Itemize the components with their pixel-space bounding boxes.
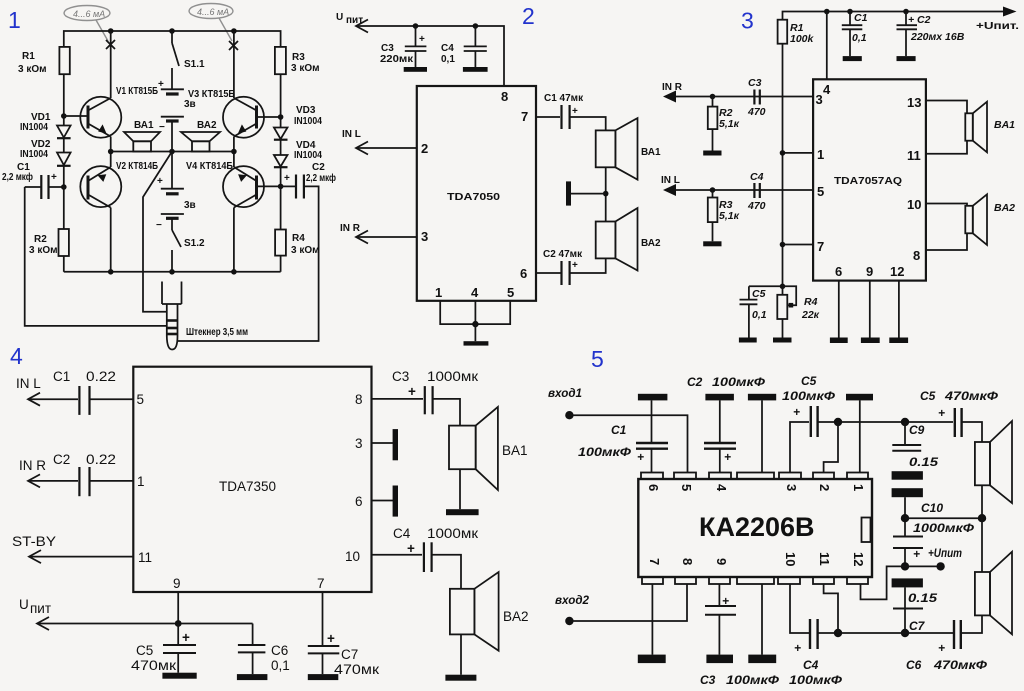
speaker BA1: [596, 130, 616, 167]
capacitor C4 1000mk: [423, 542, 425, 572]
capacitor C9 0.15: [904, 422, 906, 445]
svg-text:4...6 мА: 4...6 мА: [197, 7, 229, 17]
op-amp U1 TDA7350 body: [133, 367, 371, 592]
capacitor C2 0.22: [78, 467, 80, 496]
svg-text:C6: C6: [271, 643, 288, 658]
svg-text:3 кОм: 3 кОм: [29, 245, 58, 256]
svg-text:1: 1: [435, 285, 442, 300]
svg-text:1000мк: 1000мк: [427, 369, 478, 384]
potentiometer R4 22k: [782, 286, 784, 295]
bar4 stem wire to pin 1: [859, 400, 861, 472]
ground C7: [308, 674, 339, 680]
svg-text:3: 3: [816, 92, 823, 107]
ground R3: [703, 241, 721, 246]
svg-text:C4: C4: [441, 43, 454, 54]
capacitor C5 470mk: [177, 624, 179, 646]
svg-text:7: 7: [317, 576, 325, 591]
transistor V4 KT814B: [223, 152, 281, 272]
svg-text:IN L: IN L: [16, 376, 41, 391]
svg-text:ВА2: ВА2: [641, 238, 661, 249]
svg-text:470: 470: [747, 200, 766, 212]
svg-text:8: 8: [501, 89, 508, 104]
svg-text:1: 1: [137, 474, 145, 489]
svg-text:4: 4: [714, 484, 729, 492]
pin 12 net wire: [861, 566, 906, 599]
svg-text:U: U: [19, 597, 29, 612]
svg-text:C1: C1: [854, 12, 868, 24]
svg-text:VD3: VD3: [296, 105, 316, 116]
IC U1 KA2206B body: [638, 479, 872, 577]
svg-text:IN L: IN L: [342, 129, 361, 140]
ground C5: [739, 338, 757, 343]
svg-text:V3 КТ815Б: V3 КТ815Б: [188, 89, 235, 100]
supply wire: [356, 26, 504, 86]
capacitor C3 470: [753, 90, 755, 105]
svg-text:3: 3: [784, 484, 799, 491]
svg-text:6: 6: [646, 484, 661, 491]
svg-text:C3: C3: [748, 77, 762, 89]
IN L input wire: [666, 189, 813, 191]
svg-text:IN1004: IN1004: [20, 122, 48, 133]
current callout ellipse right 4...6 mA: [189, 4, 233, 42]
svg-text:3 кОм: 3 кОм: [291, 63, 320, 74]
ground bottom: [464, 341, 489, 345]
speaker BA2: [965, 206, 973, 234]
svg-text:C2 47мк: C2 47мк: [543, 249, 583, 260]
svg-text:+: +: [938, 641, 945, 655]
op-amp U1 TDA7057AQ body: [813, 79, 926, 280]
transistor V3 KT815B: [223, 31, 281, 152]
svg-text:2: 2: [421, 141, 428, 156]
svg-text:4: 4: [10, 343, 23, 369]
svg-text:BA1: BA1: [994, 119, 1015, 131]
svg-text:S1.2: S1.2: [184, 238, 205, 249]
svg-text:220мх 16В: 220мх 16В: [910, 31, 965, 43]
svg-text:5,1к: 5,1к: [719, 210, 740, 222]
svg-text:IN1004: IN1004: [294, 150, 322, 161]
IN L arrow pin2: [356, 147, 417, 149]
svg-text:470мк: 470мк: [131, 658, 176, 673]
capacitor C4 470: [753, 183, 755, 198]
svg-text:8: 8: [355, 392, 363, 407]
R1 column wire: [782, 44, 784, 287]
resistor R1: [59, 47, 69, 74]
svg-text:1: 1: [8, 7, 21, 33]
ground C4: [463, 67, 488, 72]
svg-text:3 кОм: 3 кОм: [291, 245, 320, 256]
svg-text:7: 7: [521, 109, 528, 124]
svg-text:R4: R4: [292, 233, 305, 244]
svg-text:C7: C7: [909, 619, 926, 633]
svg-text:R3: R3: [292, 52, 305, 63]
svg-text:R1: R1: [22, 51, 35, 62]
top ground bar 3: [748, 394, 776, 401]
svg-text:0,1: 0,1: [441, 54, 455, 65]
switch S1.2: [171, 218, 173, 230]
svg-text:470мк: 470мк: [334, 662, 379, 677]
svg-text:3 кОм: 3 кОм: [18, 64, 47, 75]
svg-text:S1.1: S1.1: [184, 59, 205, 70]
svg-text:IN R: IN R: [340, 223, 361, 234]
svg-text:+: +: [572, 260, 578, 271]
node dot R2: [710, 94, 716, 100]
svg-text:TDA7350: TDA7350: [219, 479, 276, 494]
speaker BA1: [965, 113, 973, 140]
svg-text:C5: C5: [752, 288, 766, 300]
svg-text:IN1004: IN1004: [294, 116, 322, 127]
capacitor C7 0.15 chain: [892, 578, 923, 587]
capacitor C4 0,1: [474, 26, 476, 46]
ground R4: [773, 338, 792, 343]
svg-text:TDA7057AQ: TDA7057AQ: [834, 176, 902, 187]
svg-text:V1 КТ815Б: V1 КТ815Б: [116, 86, 158, 97]
wide pad ground stem: [761, 584, 763, 655]
top supply rail: [783, 12, 1005, 20]
svg-text:−: −: [159, 122, 165, 133]
svg-text:0,1: 0,1: [852, 32, 867, 44]
svg-text:C2: C2: [917, 14, 931, 26]
svg-text:7: 7: [817, 239, 824, 254]
svg-text:+: +: [408, 384, 416, 399]
battery B1 3v: [161, 88, 184, 90]
diode VD2: [57, 153, 71, 188]
svg-text:3: 3: [355, 436, 363, 451]
pin 11 jog wire: [824, 584, 838, 633]
ground C1: [843, 56, 862, 61]
svg-text:6: 6: [355, 494, 363, 509]
svg-text:U: U: [336, 12, 343, 23]
svg-text:ВА1: ВА1: [641, 147, 661, 158]
svg-text:100мкФ: 100мкФ: [789, 673, 843, 687]
capacitor C5 0,1: [749, 285, 783, 287]
svg-text:2,2 мкф: 2,2 мкф: [306, 172, 336, 184]
supply arrow: [356, 20, 368, 33]
svg-text:+: +: [327, 631, 335, 646]
svg-text:5: 5: [507, 285, 514, 300]
svg-text:+: +: [158, 79, 164, 90]
svg-text:ВА2: ВА2: [197, 120, 217, 131]
node dot C9: [901, 418, 909, 426]
svg-text:6: 6: [520, 266, 527, 281]
svg-text:C3: C3: [392, 369, 409, 384]
svg-text:V4 КТ814Б: V4 КТ814Б: [186, 161, 233, 172]
svg-text:6: 6: [835, 264, 842, 279]
wire base V1: [64, 115, 87, 117]
transistor V2 KT814B: [80, 152, 121, 272]
transistor V1 KT815B: [80, 31, 121, 152]
svg-text:КА2206В: КА2206В: [699, 512, 815, 542]
speaker BA2: [450, 589, 475, 635]
pin 4 wire: [826, 12, 828, 80]
pin 1 wire: [783, 152, 814, 154]
capacitor C1 2,2мкф: [50, 186, 64, 188]
svg-text:100мкФ: 100мкФ: [726, 673, 780, 687]
capacitor C3 1000mk: [424, 386, 426, 414]
capacitor C2 47mk: [570, 258, 606, 273]
svg-text:+Uпит: +Uпит: [928, 546, 962, 560]
svg-text:22к: 22к: [801, 309, 820, 321]
svg-text:+: +: [908, 14, 914, 26]
capacitor C3 220mk: [415, 26, 417, 46]
top ground bar 2: [705, 394, 734, 401]
svg-text:C4: C4: [803, 658, 819, 672]
svg-text:2,2 мкф: 2,2 мкф: [2, 171, 33, 183]
svg-text:вход1: вход1: [548, 386, 582, 400]
svg-text:470мкФ: 470мкФ: [944, 389, 999, 403]
svg-text:BA1: BA1: [502, 443, 528, 458]
speaker BA1: [975, 442, 990, 485]
svg-text:10: 10: [783, 552, 798, 566]
svg-text:8: 8: [913, 248, 920, 263]
svg-text:+: +: [182, 630, 190, 645]
svg-text:3: 3: [741, 8, 754, 34]
wire R1 bottom: [63, 74, 65, 125]
svg-text:TDA7050: TDA7050: [447, 192, 501, 203]
node dot base V1: [61, 113, 67, 119]
top ground bar 4: [846, 394, 873, 401]
svg-text:10: 10: [907, 197, 921, 212]
svg-text:470: 470: [747, 106, 766, 118]
bottom rail: [64, 271, 281, 273]
top rail: [64, 31, 281, 47]
ground BA1: [446, 509, 479, 515]
switch S1.1: [171, 31, 173, 43]
pin 11 wire to BA1: [926, 141, 967, 154]
ground C3: [404, 67, 427, 72]
svg-text:C3: C3: [381, 43, 394, 54]
node dots: [413, 23, 419, 29]
svg-text:13: 13: [907, 95, 921, 110]
svg-text:+: +: [793, 405, 800, 419]
svg-text:C7: C7: [341, 647, 358, 662]
svg-text:4: 4: [823, 82, 831, 97]
svg-text:+: +: [794, 641, 801, 655]
svg-text:1000мк: 1000мк: [427, 526, 478, 541]
svg-text:C1: C1: [611, 423, 627, 437]
svg-text:100мкФ: 100мкФ: [782, 389, 836, 403]
diode VD4: [274, 155, 288, 186]
svg-text:3в: 3в: [184, 99, 196, 110]
capacitor C3 100mkF: [718, 584, 720, 606]
svg-text:ВА1: ВА1: [134, 120, 154, 131]
resistor R1 100k: [778, 20, 788, 44]
svg-text:C1: C1: [53, 369, 70, 384]
svg-text:11: 11: [138, 550, 152, 565]
svg-text:+: +: [572, 106, 578, 117]
svg-text:2: 2: [817, 484, 832, 491]
svg-text:C5: C5: [136, 643, 153, 658]
bottom pins 1,4,5 join: [440, 301, 510, 324]
ground R2: [703, 151, 721, 156]
svg-text:ST-BY: ST-BY: [12, 534, 56, 549]
svg-text:1: 1: [851, 484, 866, 491]
svg-text:C6: C6: [906, 658, 922, 672]
svg-text:5: 5: [817, 184, 824, 199]
bar3 stem wire: [761, 400, 763, 472]
svg-text:C2: C2: [687, 375, 703, 389]
wire diagonal center to plug: [143, 152, 172, 312]
svg-text:10: 10: [345, 549, 360, 564]
svg-text:R2: R2: [34, 234, 47, 245]
svg-text:5,1к: 5,1к: [719, 118, 740, 130]
svg-text:8: 8: [680, 558, 695, 565]
op-amp U1 TDA7050 body: [417, 86, 536, 301]
svg-text:9: 9: [714, 558, 729, 565]
svg-text:пит: пит: [30, 601, 51, 616]
speaker BA1: [124, 132, 160, 141]
svg-text:+: +: [637, 450, 644, 464]
ground C2: [897, 56, 916, 61]
resistor R3 5,1k: [712, 190, 714, 198]
svg-text:V2 КТ814Б: V2 КТ814Б: [116, 161, 158, 172]
svg-text:7: 7: [647, 558, 662, 565]
svg-text:+: +: [407, 541, 415, 556]
resistor R2 5,1k: [712, 97, 714, 107]
+Upit terminal: [905, 565, 940, 567]
svg-text:11: 11: [907, 148, 921, 163]
measure point X left: [106, 40, 115, 49]
svg-text:+: +: [724, 450, 731, 464]
ground BA2: [445, 675, 476, 681]
svg-text:1: 1: [817, 147, 824, 162]
+Upit arrow: [1003, 7, 1017, 17]
svg-text:+Uпит.: +Uпит.: [976, 21, 1019, 32]
svg-text:IN L: IN L: [661, 175, 680, 186]
capacitor C10 1000mkF chain: [892, 488, 923, 497]
capacitor C2 2,2мкф: [281, 185, 295, 187]
IN R input wire: [666, 96, 813, 98]
ground bar C9: [892, 471, 923, 480]
node dot under bar: [834, 418, 842, 426]
svg-text:0.22: 0.22: [86, 452, 116, 467]
svg-text:0,1: 0,1: [271, 658, 290, 673]
svg-text:0.22: 0.22: [86, 369, 116, 384]
pin 8 wire to BA2: [926, 233, 967, 250]
svg-text:100мкФ: 100мкФ: [578, 445, 632, 459]
capacitor C2 220mk 16V: [905, 12, 907, 26]
speaker BA1: [449, 426, 476, 470]
pin 10 wire to BA2: [926, 204, 967, 206]
pin 12 stem + ground: [898, 281, 900, 338]
svg-text:12: 12: [851, 552, 866, 566]
svg-text:0.15: 0.15: [908, 591, 937, 605]
svg-text:вход2: вход2: [555, 593, 589, 607]
svg-text:C9: C9: [909, 423, 925, 437]
svg-text:100мкФ: 100мкФ: [712, 375, 766, 389]
svg-text:5: 5: [591, 346, 604, 372]
svg-text:IN1004: IN1004: [20, 149, 48, 160]
svg-text:+: +: [913, 547, 920, 561]
svg-text:4: 4: [471, 285, 479, 300]
capacitor C1 100mkF: [651, 400, 653, 443]
center tap wire: [605, 167, 607, 221]
svg-text:9: 9: [866, 264, 873, 279]
svg-text:C2: C2: [312, 162, 325, 173]
ground bar vertical: [566, 181, 571, 205]
svg-text:C4: C4: [393, 526, 411, 541]
resistor R3: [275, 47, 286, 74]
svg-text:12: 12: [890, 264, 904, 279]
svg-text:−: −: [156, 220, 162, 231]
pin 9 stem + ground: [869, 281, 871, 338]
battery B2 3v: [171, 152, 173, 189]
svg-text:+: +: [157, 176, 163, 187]
resistor R2: [63, 187, 65, 229]
pin 13 wire to BA1: [926, 101, 967, 114]
svg-text:C5: C5: [801, 374, 817, 388]
svg-text:IN R: IN R: [662, 82, 683, 93]
svg-text:R4: R4: [804, 296, 818, 308]
capacitor C6 470mkF: [953, 620, 955, 649]
capacitor C6 0,1: [252, 624, 254, 646]
svg-text:+: +: [51, 172, 57, 183]
mid rail: [111, 151, 234, 153]
svg-text:2: 2: [522, 3, 535, 29]
svg-text:+: +: [938, 406, 945, 420]
speaker BA2: [975, 572, 990, 615]
svg-text:470мкФ: 470мкФ: [933, 658, 988, 672]
top ground bar 1: [638, 394, 668, 401]
svg-text:0.15: 0.15: [909, 455, 938, 469]
svg-text:C5: C5: [920, 389, 936, 403]
capacitor C4 100mkF: [790, 584, 809, 633]
top pin pads: [641, 473, 663, 480]
svg-text:100k: 100k: [790, 33, 815, 45]
wire left loop to plug: [25, 187, 167, 326]
ground C5: [162, 673, 196, 679]
speaker BA2: [596, 222, 616, 259]
pin 7 ground stem: [651, 584, 653, 655]
diode VD1: [57, 126, 71, 153]
pin 7 wire: [783, 244, 814, 246]
speaker BA2: [181, 132, 220, 141]
measure point X right: [229, 41, 238, 50]
node dot R3: [710, 187, 716, 193]
plug 3.5mm: [162, 282, 182, 350]
svg-text:C1 47мк: C1 47мк: [544, 93, 584, 104]
diode VD3: [274, 128, 288, 155]
svg-text:3: 3: [421, 229, 428, 244]
svg-text:Штекнер 3,5 мм: Штекнер 3,5 мм: [186, 327, 248, 338]
svg-text:IN R: IN R: [19, 458, 46, 473]
current callout ellipse left 4...6 mA: [64, 6, 110, 42]
node dot VD2/C1/R2/base V2: [61, 184, 67, 190]
svg-text:C4: C4: [750, 171, 764, 183]
pin 6 stem + ground: [838, 281, 840, 338]
node dots top rail: [108, 28, 114, 34]
ground C6: [237, 674, 268, 680]
resistor R4: [280, 186, 282, 229]
svg-text:BA2: BA2: [503, 609, 529, 624]
svg-text:9: 9: [173, 576, 181, 591]
notch tab on right edge: [862, 518, 871, 543]
svg-text:+: +: [419, 34, 425, 45]
svg-text:BA2: BA2: [994, 202, 1015, 214]
svg-text:3в: 3в: [184, 200, 196, 211]
svg-text:0,1: 0,1: [752, 309, 767, 321]
svg-text:+: +: [284, 173, 290, 184]
svg-text:5: 5: [679, 484, 694, 491]
capacitor C1 0.22: [78, 386, 80, 415]
svg-text:C10: C10: [921, 501, 943, 515]
svg-text:+: +: [722, 594, 729, 608]
node dot mid rail left: [108, 149, 114, 155]
svg-text:4...6 мА: 4...6 мА: [73, 9, 105, 19]
svg-text:1000мкФ: 1000мкФ: [913, 521, 975, 535]
IN R arrow pin3: [356, 236, 417, 238]
svg-text:5: 5: [137, 392, 145, 407]
svg-text:11: 11: [817, 552, 832, 566]
